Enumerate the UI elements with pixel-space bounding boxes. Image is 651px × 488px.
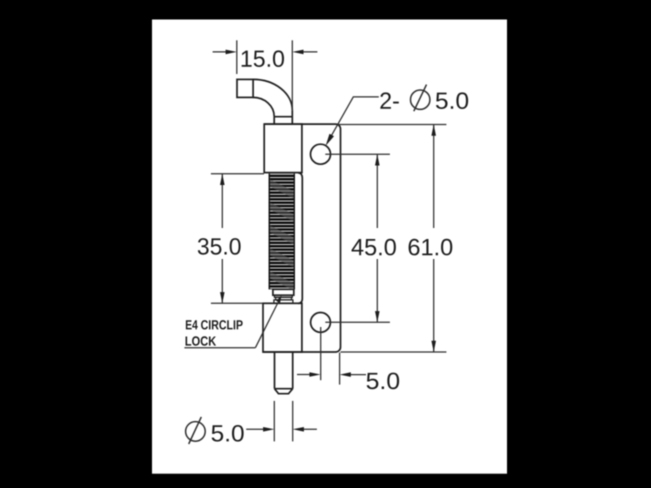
circlip collar band 1 <box>273 289 294 295</box>
upper boss block <box>264 124 302 173</box>
spring shading streak 3 <box>264 226 300 244</box>
dia 5.0 right arrow line <box>298 428 317 430</box>
spring body <box>264 174 300 290</box>
dim 15.0 left extension line <box>236 40 238 74</box>
lower hole <box>311 313 331 333</box>
handle bend inner arc <box>253 97 274 116</box>
dia 5.0 left arrow line <box>246 428 269 430</box>
dim 5.0 bottom right leftward arrowhead <box>340 372 351 377</box>
dim 5.0 bottom right right arrow line <box>345 374 366 376</box>
dim 35.0 dimension line lower segment <box>221 259 223 303</box>
leader arrowhead at upper hole <box>326 134 334 146</box>
dim 15.0 right arrow line <box>298 51 318 53</box>
dim 61.0 bottom extension line <box>341 351 447 353</box>
dim 45.0 dimension line upper segment <box>376 154 378 228</box>
lower boss block <box>263 303 302 352</box>
pin right edge <box>292 352 294 389</box>
note text CIRCLIP <box>201 320 243 329</box>
circlip leader underline <box>184 347 255 349</box>
circlip leader arrowhead <box>276 295 281 303</box>
dia symbol top slash <box>414 85 427 112</box>
dim text 5.0 bottom <box>212 425 244 442</box>
plate edge extension line bottom right <box>339 353 341 385</box>
dim text 2- <box>380 92 398 108</box>
dia symbol bottom slash <box>189 417 202 444</box>
dim 15.0 right extension line <box>291 40 293 110</box>
white drawing sheet <box>152 20 507 474</box>
dim 45.0 top extension line <box>325 153 390 155</box>
hole center extension line bottom right <box>320 327 322 380</box>
handle neck joint line <box>274 116 292 118</box>
dim text 61.0 <box>409 239 453 256</box>
plate outline with rounded right corners <box>263 124 341 352</box>
dim 45.0 bottom extension line <box>325 321 390 323</box>
handle bend outer arc <box>253 79 292 110</box>
dia symbol bottom circle <box>186 422 206 442</box>
note text LOCK <box>186 336 217 345</box>
dim 35.0 bottom extension line <box>211 302 263 304</box>
dim 15.0 left arrow line <box>213 51 232 53</box>
dim 35.0 top extension line <box>211 173 264 175</box>
circlip collar band 4 <box>274 300 293 303</box>
circlip leader diagonal <box>255 300 279 348</box>
plate left edge between bosses <box>298 173 302 303</box>
dim 61.0 dimension line upper segment <box>433 125 435 229</box>
dim text 35.0 <box>198 238 241 255</box>
handle tip rectangle <box>237 79 253 97</box>
dim 35.0 dimension line upper segment <box>221 174 223 228</box>
dia 5.0 leftward arrowhead <box>293 427 304 432</box>
upper hole <box>311 144 331 164</box>
dim 45.0 dimension line lower segment <box>376 259 378 322</box>
note text E4 <box>186 320 198 329</box>
dim 61.0 up arrowhead <box>431 125 436 136</box>
dim 15.0 left arrowhead <box>226 50 237 55</box>
spring shading streak 5 <box>264 272 300 290</box>
circlip collar band 3 <box>276 297 292 300</box>
dia symbol top circle <box>411 90 430 109</box>
dim 5.0 bottom right left arrow line <box>297 374 315 376</box>
pin tip <box>275 389 293 394</box>
handle neck left edge <box>273 117 275 125</box>
dim 35.0 up arrowhead <box>220 174 225 185</box>
dim 45.0 up arrowhead <box>375 154 380 165</box>
dim 45.0 down arrowhead <box>375 311 380 322</box>
dia 5.0 rightward arrowhead <box>263 427 274 432</box>
dim 61.0 dimension line lower segment <box>433 259 435 352</box>
circlip collar band 2 <box>274 295 292 297</box>
dim text 45.0 <box>352 239 396 256</box>
dim text 5.0 bottom right <box>367 373 400 390</box>
spring shading streak 2 <box>264 203 300 221</box>
spring shading streak 1 <box>264 180 300 198</box>
spring shading streak 4 <box>264 249 300 267</box>
spring left edge <box>268 174 270 290</box>
dia 5.0 left extension line <box>273 401 275 442</box>
dim 61.0 down arrowhead <box>431 341 436 352</box>
handle neck right edge <box>291 110 293 124</box>
dim 5.0 bottom right rightward arrowhead <box>309 372 320 377</box>
dim text 15.0 <box>242 50 284 67</box>
dim 15.0 right arrowhead <box>292 50 303 55</box>
pin left edge <box>274 352 276 389</box>
dim 61.0 top extension line <box>338 124 446 126</box>
dim 35.0 down arrowhead <box>220 292 225 303</box>
dia 5.0 right extension line <box>292 401 294 442</box>
dim text 5.0 top <box>436 92 468 109</box>
pin chamfer line <box>275 388 293 390</box>
leader line to upper hole <box>327 97 378 143</box>
spring right edge <box>293 174 295 290</box>
